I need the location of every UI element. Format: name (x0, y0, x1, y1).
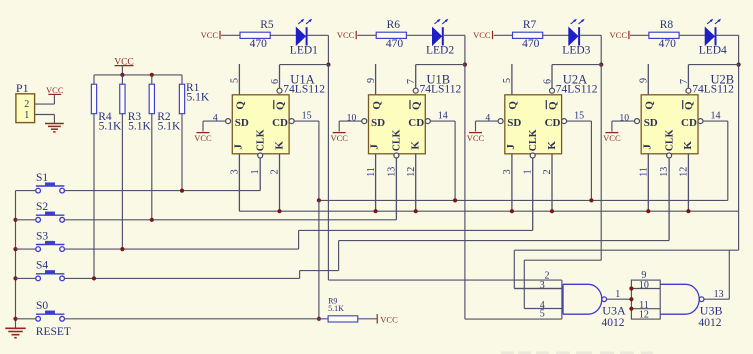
svg-text:VCC: VCC (467, 133, 485, 143)
svg-text:CLK: CLK (392, 129, 403, 151)
svg-text:5: 5 (230, 78, 241, 83)
wire Q-bar horizontal (552, 64, 601, 66)
pin 2 K of U2A (551, 154, 553, 211)
svg-text:2: 2 (545, 270, 550, 281)
svg-text:13: 13 (386, 167, 397, 177)
svg-text:U3B: U3B (700, 304, 723, 318)
wire LED cathode to Q-bar node (717, 34, 739, 36)
svg-text:7: 7 (406, 79, 417, 84)
wire CD/reset net (319, 199, 728, 201)
pin 11 J of U2B (647, 154, 649, 211)
pin 3 J of U1A (238, 154, 240, 211)
wire S3 to U2A CLK (64, 248, 298, 250)
svg-text:R7: R7 (523, 19, 537, 31)
svg-text:K: K (546, 141, 558, 150)
wire U3A output (pin 1) to U3B inputs (607, 298, 632, 300)
svg-text:4012: 4012 (602, 317, 625, 329)
pushbutton switch S2 (16, 219, 36, 221)
faint cropped watermark at bottom edge (501, 352, 514, 354)
svg-text:14: 14 (438, 111, 448, 122)
svg-text:2: 2 (24, 99, 29, 110)
svg-text:K: K (273, 141, 285, 150)
svg-text:P1: P1 (16, 81, 29, 95)
svg-text:3: 3 (540, 280, 545, 291)
svg-text:74LS112: 74LS112 (692, 84, 734, 96)
svg-text:J: J (641, 144, 653, 150)
junction K U1B (414, 209, 418, 213)
svg-text:9: 9 (366, 78, 377, 83)
pin 13 CLK of U1B (394, 153, 399, 158)
ground (P1) (45, 123, 64, 125)
LED LED3 (569, 27, 578, 45)
wire LED cathode to Q-bar node (308, 34, 329, 36)
svg-text:S1: S1 (36, 172, 48, 184)
junction R3 to switch row (120, 247, 124, 251)
pushbutton switch S0 (reset) (16, 318, 36, 320)
wire LED cathode to Q-bar node (444, 34, 465, 36)
power port VCC (P1) (48, 93, 61, 95)
flip-flop U1A body (74LS112) (232, 95, 289, 154)
svg-text:13: 13 (714, 289, 724, 300)
junction J U2B (646, 209, 650, 213)
svg-text:2: 2 (270, 169, 281, 174)
pin 3 J of U2A (511, 154, 513, 211)
resistor R7 470 (513, 32, 543, 38)
wire R9 to VCC (358, 318, 377, 320)
wire common J/K net (239, 210, 738, 212)
svg-text:LED4: LED4 (699, 45, 727, 57)
junction K U1A (277, 209, 281, 213)
svg-text:Q: Q (274, 101, 286, 110)
svg-text:10: 10 (639, 280, 649, 291)
svg-text:1: 1 (24, 110, 29, 121)
svg-text:470: 470 (659, 38, 677, 50)
pin 10 SD of U1B with VCC (362, 119, 367, 124)
junction rail S3 (13, 247, 17, 251)
svg-text:3: 3 (502, 169, 513, 174)
svg-text:S4: S4 (36, 260, 48, 272)
junction CD U2A (589, 198, 593, 202)
junction node Q-bar U2B (737, 63, 741, 67)
resistor R1 5.1K (181, 75, 183, 84)
pin 14 CD of U2B (698, 119, 703, 124)
wire U3B.13 net to U3A pin3 (514, 249, 738, 251)
junction node Q-bar U2A (599, 63, 603, 67)
svg-text:74LS112: 74LS112 (556, 84, 598, 96)
svg-text:470: 470 (386, 38, 404, 50)
svg-text:Q: Q (371, 101, 383, 110)
svg-text:U3A: U3A (602, 304, 626, 318)
svg-text:74LS112: 74LS112 (283, 84, 325, 96)
junction rail S0 (13, 317, 17, 321)
flip-flop U1B body (74LS112) (369, 95, 426, 154)
svg-text:VCC: VCC (603, 133, 621, 143)
svg-text:12: 12 (406, 167, 417, 177)
pin 1 CLK of U2A (530, 153, 535, 158)
pin 15 CD of U1A (289, 119, 294, 124)
wire LED cathode to Q-bar node (580, 34, 601, 36)
svg-text:SD: SD (507, 117, 521, 129)
wire P1 pin1 to ground (35, 114, 55, 116)
svg-text:15: 15 (574, 111, 584, 122)
NAND gate U3A (4012) (563, 284, 602, 314)
svg-text:10: 10 (347, 112, 357, 123)
svg-text:12: 12 (679, 167, 690, 177)
svg-text:4012: 4012 (699, 317, 722, 329)
svg-text:470: 470 (522, 38, 540, 50)
svg-text:CD: CD (272, 117, 288, 129)
pin 12 K of U1B (415, 154, 417, 211)
svg-text:LED2: LED2 (426, 45, 454, 57)
svg-text:VCC: VCC (46, 85, 64, 95)
svg-text:RESET: RESET (36, 326, 71, 338)
svg-text:5.1K: 5.1K (328, 304, 344, 313)
LED LED2 (432, 27, 441, 45)
junction U3B pin11 (629, 307, 633, 311)
svg-text:VCC: VCC (473, 30, 491, 40)
svg-text:13: 13 (659, 167, 670, 177)
pin 9 Q of U1B (stub) (375, 64, 377, 95)
wire node Q-bar U2A down then left then to U3A pin4 row (600, 65, 602, 261)
svg-text:14: 14 (711, 111, 721, 122)
pin 15 CD of U2A (562, 119, 567, 124)
wire S0/reset row (64, 318, 328, 320)
svg-text:S0: S0 (36, 300, 48, 312)
svg-text:4: 4 (485, 112, 490, 123)
U3A input pin rows (514, 288, 562, 290)
LED LED1 (296, 27, 305, 45)
wire node Q-bar U1A down to U3A pin2 row (327, 65, 329, 281)
svg-text:CLK: CLK (256, 129, 267, 151)
connector P1 body (16, 94, 35, 123)
pin 6 Q-bar of U2A (551, 65, 553, 89)
wire Q-bar horizontal (280, 64, 329, 66)
junction R1 to switch row (180, 189, 184, 193)
svg-text:Q: Q (411, 101, 423, 110)
resistor R3 5.1K (121, 75, 123, 84)
svg-text:12: 12 (639, 310, 649, 321)
svg-text:1: 1 (250, 169, 261, 174)
svg-text:VCC: VCC (337, 30, 355, 40)
flip-flop U2A body (74LS112) (505, 95, 562, 154)
NAND gate U3B (4012) (660, 284, 699, 314)
svg-text:J: J (505, 144, 517, 150)
svg-text:11: 11 (639, 167, 650, 177)
junction R4 to switch row (92, 276, 96, 280)
svg-text:Q: Q (235, 101, 247, 110)
svg-text:5.1K: 5.1K (187, 92, 210, 104)
svg-text:6: 6 (270, 79, 281, 84)
svg-text:470: 470 (250, 38, 268, 50)
junction rail S4 (13, 276, 17, 280)
svg-text:11: 11 (366, 167, 377, 177)
resistor R4 5.1K (93, 75, 95, 84)
flip-flop U2B body (74LS112) (641, 95, 698, 154)
svg-text:1: 1 (523, 169, 534, 174)
pin 6 Q-bar of U1A (279, 65, 281, 89)
svg-text:VCC: VCC (380, 314, 398, 324)
wire S4 to U2B CLK (64, 277, 299, 279)
pushbutton switch S1 (16, 190, 36, 192)
svg-text:SD: SD (371, 117, 385, 129)
svg-text:3: 3 (230, 169, 241, 174)
svg-text:10: 10 (619, 112, 629, 123)
svg-text:CLK: CLK (528, 129, 539, 151)
pin 14 CD of U1B (425, 119, 430, 124)
pushbutton switch S3 (16, 248, 36, 250)
pin 12 K of U2B (687, 154, 689, 211)
junction K U2A (550, 209, 554, 213)
junction rail S2 (13, 218, 17, 222)
svg-text:5.1K: 5.1K (99, 121, 122, 133)
wire S2 to U1B CLK (64, 219, 396, 221)
pushbutton switch S4 (16, 277, 36, 279)
svg-text:K: K (410, 141, 422, 150)
pin 7 Q-bar of U2B (687, 65, 689, 89)
wire S1 to U1A CLK (64, 190, 260, 192)
svg-text:VCC: VCC (201, 30, 219, 40)
junction U3B pin10 (629, 286, 633, 290)
svg-text:5.1K: 5.1K (158, 121, 181, 133)
junction J U2A (510, 209, 514, 213)
svg-text:LED1: LED1 (290, 45, 318, 57)
pin 4 SD of U2A with VCC (498, 119, 503, 124)
svg-text:6: 6 (543, 79, 554, 84)
svg-text:1: 1 (615, 289, 620, 300)
svg-text:VCC: VCC (330, 133, 348, 143)
svg-text:R6: R6 (387, 19, 401, 31)
svg-text:CLK: CLK (664, 129, 675, 151)
resistor R6 470 (376, 32, 406, 38)
junction reset row (317, 317, 321, 321)
junction node Q-bar U1B (463, 63, 467, 67)
svg-text:9: 9 (639, 78, 650, 83)
junction R2 to switch row (150, 218, 154, 222)
pin 10 SD of U2B with VCC (635, 119, 640, 124)
svg-text:K: K (682, 141, 694, 150)
wire Q-bar horizontal (688, 64, 738, 66)
svg-text:7: 7 (679, 79, 690, 84)
pin 5 Q of U1A (stub) (238, 64, 240, 95)
svg-text:LED3: LED3 (562, 45, 590, 57)
svg-text:Q: Q (644, 101, 656, 110)
svg-text:SD: SD (644, 117, 658, 129)
pin 9 Q of U2B (stub) (647, 64, 649, 95)
pin 11 J of U1B (375, 154, 377, 211)
svg-text:5.1K: 5.1K (128, 121, 151, 133)
junction node Q-bar U1A (326, 63, 330, 67)
wire P1 pin2 to VCC (35, 103, 55, 105)
junction J U1B (374, 209, 378, 213)
wire node Q-bar U2B down to U3B output net (738, 65, 740, 251)
svg-text:Q: Q (507, 101, 519, 110)
svg-text:SD: SD (235, 117, 249, 129)
pin 2 K of U1A (279, 154, 281, 211)
svg-text:R8: R8 (660, 19, 674, 31)
svg-text:S2: S2 (36, 201, 48, 213)
resistor R5 470 (240, 32, 270, 38)
junction K U2B (686, 209, 690, 213)
wire left rail (15, 191, 17, 328)
svg-text:S3: S3 (36, 230, 48, 242)
wire resistor-top bus (94, 74, 182, 76)
wire U3B output (pin 13) (704, 298, 729, 300)
wire Q-bar horizontal (416, 64, 465, 66)
pin 7 Q-bar of U1B (415, 65, 417, 89)
junction VCC/R3 (120, 73, 124, 77)
ground (bottom of rail) (5, 327, 26, 329)
wire node Q-bar U1B down to U3A pin5 row (464, 65, 466, 320)
junction CD U1B (453, 198, 457, 202)
svg-text:CD: CD (681, 117, 697, 129)
svg-text:CD: CD (545, 117, 561, 129)
svg-text:R5: R5 (260, 19, 274, 31)
pin 5 Q of U2A (stub) (511, 64, 513, 95)
wire CD net down to S0/R9 row (318, 200, 320, 318)
LED LED4 (705, 27, 714, 45)
resistor R8 470 (649, 32, 679, 38)
svg-text:74LS112: 74LS112 (420, 84, 462, 96)
svg-text:15: 15 (302, 111, 312, 122)
junction R2 (150, 73, 154, 77)
resistor R9 5.1K (328, 316, 358, 322)
svg-text:Q: Q (683, 101, 695, 110)
svg-text:J: J (369, 144, 381, 150)
pin 1 CLK of U1A (258, 153, 263, 158)
svg-text:5: 5 (540, 309, 545, 320)
svg-text:J: J (233, 144, 245, 150)
junction CD net / R9 drop (317, 198, 321, 202)
resistor R2 5.1K (151, 75, 153, 84)
svg-text:Q: Q (547, 101, 559, 110)
svg-text:4: 4 (213, 112, 218, 123)
svg-text:CD: CD (408, 117, 424, 129)
svg-text:VCC: VCC (194, 133, 212, 143)
svg-text:VCC: VCC (610, 30, 628, 40)
U3B input pin box (631, 280, 660, 319)
svg-text:2: 2 (542, 169, 553, 174)
power port VCC (R9) (376, 314, 378, 323)
pin 13 CLK of U2B (667, 153, 672, 158)
svg-text:5: 5 (502, 78, 513, 83)
pin 4 SD of U1A with VCC (226, 119, 231, 124)
junction U3B pin9/12 feed (629, 297, 633, 301)
